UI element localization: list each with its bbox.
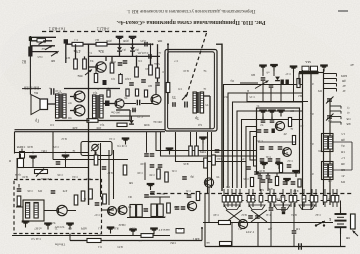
wire <box>64 88 120 90</box>
AF output line pair b <box>15 131 166 133</box>
junction <box>65 152 67 154</box>
trimmer cap 2 <box>326 114 334 121</box>
wire <box>29 57 31 95</box>
wire <box>298 73 300 85</box>
ground <box>275 163 283 169</box>
wire <box>65 162 67 168</box>
capacitor C33 <box>150 165 155 167</box>
electrolytic C10 <box>51 88 54 95</box>
wire <box>167 44 169 82</box>
wire <box>75 44 77 59</box>
capacitor C53 <box>182 177 187 179</box>
wire <box>293 234 295 246</box>
wire <box>273 67 275 77</box>
resistor R18 <box>74 195 78 205</box>
ground <box>270 65 278 71</box>
junction <box>136 55 138 57</box>
wire <box>216 43 222 45</box>
electrolytic C55 <box>105 101 110 107</box>
junction <box>150 43 152 45</box>
switch contact 3 <box>230 189 234 207</box>
electrolytic C59 <box>272 129 275 134</box>
resistor R6 <box>135 67 139 77</box>
resistor R17 <box>17 196 21 206</box>
wire <box>267 179 269 191</box>
switch contact 5 <box>238 189 242 207</box>
wire <box>157 44 159 68</box>
capacitor C23 <box>56 162 61 164</box>
connector prong <box>20 149 25 159</box>
ground <box>260 163 268 169</box>
switch contact 9 <box>268 189 272 207</box>
wire <box>120 73 122 75</box>
wire <box>208 188 210 223</box>
resistor R23 <box>141 234 153 238</box>
wire <box>30 45 55 47</box>
trimmer cap 1 <box>326 97 334 104</box>
wire <box>333 141 352 143</box>
resistor R2 <box>96 42 107 46</box>
capacitor C13 <box>270 120 275 122</box>
wire <box>161 132 257 156</box>
wire <box>95 152 97 156</box>
resistor R3 <box>74 59 78 69</box>
capacitor C64 <box>255 216 260 218</box>
wire <box>231 222 233 246</box>
electrolytic C66 <box>281 208 286 214</box>
IF winding <box>34 203 38 219</box>
contact trapezoid <box>299 205 315 210</box>
volume pot R16 <box>35 169 48 177</box>
capacitor C3 <box>145 42 147 47</box>
screen box A outer <box>165 50 217 132</box>
capacitor C51 <box>187 195 192 197</box>
capacitor C9 <box>185 102 187 108</box>
small part <box>176 229 184 234</box>
wire <box>293 68 295 102</box>
IF can 2b <box>137 205 143 218</box>
switch blade <box>255 81 269 89</box>
resistor R38 <box>196 192 199 201</box>
wire <box>240 82 258 84</box>
fuse holder <box>351 214 356 229</box>
capacitor C4 <box>149 54 151 59</box>
electrolytic C43 <box>281 80 284 85</box>
electrolytic C44 <box>286 80 289 85</box>
wire <box>30 36 56 38</box>
capacitor C37 <box>283 182 288 184</box>
wire <box>302 70 304 75</box>
switch contact 13 <box>293 189 297 207</box>
resistor R35 <box>119 75 122 84</box>
wire <box>209 96 211 129</box>
wire <box>141 103 153 105</box>
switch contact 12 <box>289 189 293 207</box>
resistor R11 <box>117 123 127 126</box>
switch linkage dashed 2 <box>240 200 330 202</box>
wire <box>280 84 282 102</box>
ground <box>166 149 174 155</box>
resistor R4 <box>83 59 87 69</box>
wire <box>65 44 67 63</box>
wire <box>340 201 342 208</box>
wire <box>276 173 278 177</box>
bus wire <box>221 44 223 192</box>
diode D4 <box>129 120 134 124</box>
ground <box>147 184 155 190</box>
ferrite rod MA <box>299 66 319 74</box>
variable cap arrow <box>182 94 188 100</box>
ground <box>320 66 328 72</box>
coil tap b2 <box>330 111 341 114</box>
wire <box>258 141 296 143</box>
capacitor C62 <box>276 159 281 161</box>
transistor T4b <box>283 148 292 157</box>
resistor R42 <box>126 89 129 96</box>
capacitor C41 <box>144 154 149 156</box>
transistor T3 <box>118 206 127 215</box>
junction <box>119 43 121 45</box>
ground <box>259 111 267 117</box>
wire <box>146 132 148 153</box>
wire <box>262 117 264 120</box>
wire <box>159 197 161 204</box>
wire <box>340 234 342 247</box>
wire <box>246 93 248 102</box>
wire <box>113 150 115 199</box>
page dash mark <box>338 10 348 12</box>
IF can 3a <box>151 204 157 217</box>
capacitor C27 <box>144 209 149 211</box>
wire <box>67 210 76 212</box>
switch contact 6 <box>247 189 251 207</box>
driver transformer Tr1b <box>93 95 104 118</box>
resistor R20 <box>103 194 107 204</box>
transistor T5 <box>151 95 161 105</box>
IF can 2a <box>130 205 136 218</box>
wire <box>44 210 57 212</box>
capacitor C28 <box>144 195 149 197</box>
wire <box>48 103 56 105</box>
ground <box>129 37 137 43</box>
resistor R10 <box>87 119 98 123</box>
wire <box>32 163 34 168</box>
bottom rail left <box>70 240 202 242</box>
transistor T7 <box>74 91 85 102</box>
switch contact 7 <box>251 189 255 207</box>
wire <box>262 81 264 102</box>
bus corner 3 <box>254 137 257 167</box>
wire <box>351 142 353 170</box>
junction <box>152 43 154 45</box>
wire <box>131 116 133 120</box>
capacitor C56 <box>137 100 139 106</box>
resistor R12 <box>288 118 291 127</box>
switch Vk <box>315 221 325 227</box>
wire <box>132 51 134 56</box>
wire <box>270 211 272 246</box>
capacitor C63 <box>248 216 253 218</box>
ground <box>290 67 298 73</box>
wire <box>12 235 170 237</box>
wire <box>147 196 170 198</box>
capacitor C7 <box>155 83 160 85</box>
wire <box>190 132 192 146</box>
capacitor C5 <box>118 63 123 65</box>
ground <box>259 66 267 72</box>
wire <box>129 110 131 121</box>
bus L5 <box>242 120 304 189</box>
resistor R7 <box>149 65 153 75</box>
bus corner 1 <box>246 127 257 189</box>
wire <box>202 144 204 151</box>
wire <box>124 103 136 105</box>
wire <box>262 67 264 76</box>
wire <box>52 132 54 160</box>
bus L2 <box>228 93 303 188</box>
transistor T11 <box>238 219 247 228</box>
scan smudge <box>0 10 180 110</box>
wire <box>116 109 130 111</box>
contact trapezoid <box>249 205 265 210</box>
coil tap b1 <box>330 106 341 109</box>
resistor R8 <box>156 68 160 78</box>
switch blade V3 <box>51 51 59 56</box>
coil tap b4 <box>330 122 341 125</box>
wire <box>102 209 115 211</box>
capacitor C65 <box>269 208 274 210</box>
ground <box>292 171 300 177</box>
switch contact 16 <box>314 189 318 207</box>
resistor R19 <box>81 191 85 201</box>
wire <box>105 56 107 61</box>
resistor R36 <box>250 178 253 187</box>
capacitor C24 <box>51 191 56 193</box>
pad <box>64 39 68 43</box>
electrolytic C40 <box>299 243 302 250</box>
bus L3 <box>233 102 304 188</box>
wire <box>70 110 74 112</box>
resistor R5 <box>110 63 114 73</box>
capacitor C35 <box>246 167 251 169</box>
wire <box>144 163 146 181</box>
switch contact 11 <box>281 189 285 207</box>
band coil can 1 <box>322 134 334 152</box>
electrolytic C47 <box>103 80 110 90</box>
wire <box>127 217 165 219</box>
contact trapezoid <box>224 205 240 210</box>
resistor R28 <box>298 179 301 187</box>
ground <box>62 156 70 162</box>
supply rail <box>203 222 333 224</box>
switch contact 15 <box>310 189 314 207</box>
ground <box>66 224 74 230</box>
resistor R40 <box>165 172 168 182</box>
resistor R30 <box>220 242 232 246</box>
capacitor C12 <box>261 120 266 122</box>
module outline dashed <box>14 180 102 234</box>
ground <box>283 179 291 185</box>
resistor R21 <box>167 203 171 213</box>
resistor R19b <box>89 189 93 199</box>
resistor R44 <box>144 90 147 97</box>
coil tap b3 <box>330 117 341 120</box>
switch contact 19 <box>335 189 339 207</box>
wire <box>89 55 161 57</box>
wire <box>156 132 257 151</box>
resistor R41 <box>107 90 110 97</box>
wire <box>18 184 20 188</box>
wire <box>204 194 206 247</box>
wire <box>155 86 157 94</box>
capacitor C48 <box>261 180 266 182</box>
dashed chassis rail <box>42 31 207 33</box>
IF can 3b <box>158 204 164 217</box>
capacitor C42 <box>150 154 155 156</box>
wire <box>55 120 130 122</box>
transistor T8 <box>74 105 85 116</box>
switch contact 17 <box>323 189 327 207</box>
dashed tuning-gang link <box>187 33 207 96</box>
switch contact 14 <box>302 189 306 207</box>
wire <box>119 43 121 47</box>
speaker Gr <box>31 95 48 115</box>
resistor R33 <box>195 146 198 156</box>
capacitor C14 <box>260 147 265 149</box>
capacitor C19 <box>258 176 263 178</box>
wire <box>257 222 259 246</box>
transistor T9 <box>204 178 213 187</box>
resistor R43 <box>135 89 138 96</box>
wire <box>259 173 261 175</box>
bus L1 <box>224 85 304 189</box>
jack Gn1 tip <box>29 37 32 42</box>
switch contact 4 <box>234 189 238 207</box>
ground <box>150 229 158 235</box>
wire <box>157 78 159 82</box>
wire <box>270 203 272 207</box>
wire <box>196 132 198 146</box>
ground <box>129 230 137 236</box>
junction <box>32 152 34 154</box>
switch contact 10 <box>272 189 276 207</box>
resistor R26 <box>204 158 208 168</box>
wire <box>100 143 102 197</box>
wire <box>16 158 18 181</box>
capacitor C16 <box>278 147 283 149</box>
node wire <box>66 43 151 45</box>
resistor R1 <box>72 42 83 46</box>
resistor R34 <box>94 74 97 83</box>
wire <box>88 44 90 205</box>
switch linkage dashed <box>150 193 352 195</box>
wire <box>89 66 96 68</box>
sub-board outline C <box>257 108 300 173</box>
transistor T3g <box>108 207 117 216</box>
wire <box>167 93 169 105</box>
capacitor C18 <box>269 85 274 87</box>
wire <box>267 173 269 175</box>
capacitor C30 <box>175 207 180 209</box>
jack Gn2 <box>91 144 99 158</box>
wire <box>270 88 272 102</box>
ground <box>44 224 52 230</box>
capacitor C29 <box>150 192 155 194</box>
wire <box>22 88 41 90</box>
resistor R13 <box>292 136 295 145</box>
ground <box>122 139 130 145</box>
capacitor C46 <box>129 83 134 85</box>
resistor R15 <box>275 177 278 186</box>
wire <box>319 72 324 74</box>
wire <box>211 132 213 188</box>
wire <box>70 96 74 98</box>
diode D1 <box>117 47 122 51</box>
wire <box>14 132 16 154</box>
diode D3 <box>275 77 280 81</box>
crossing wires <box>226 210 267 222</box>
bus L4 <box>237 111 303 188</box>
transistor T2b <box>275 121 284 130</box>
coil tap 3 <box>324 84 337 87</box>
resistor R31 <box>87 239 101 243</box>
capacitor C58 <box>264 130 269 132</box>
coil tap 4 <box>324 89 337 92</box>
wire <box>132 43 134 47</box>
wire <box>150 56 152 65</box>
capacitor C61 <box>268 159 273 161</box>
wire <box>30 40 52 42</box>
wire <box>30 51 57 53</box>
wire <box>293 203 295 230</box>
wire <box>108 150 110 205</box>
wire <box>69 234 71 241</box>
capacitor C49 <box>268 180 273 182</box>
capacitor C67 <box>292 231 297 233</box>
IF can 1 <box>23 200 44 221</box>
wire <box>95 67 97 74</box>
capacitor C17 <box>261 78 266 80</box>
resistor R24 <box>94 155 98 165</box>
wire <box>110 115 150 117</box>
wire <box>271 117 273 120</box>
strip rail <box>310 74 312 210</box>
capacitor C31 <box>181 207 186 209</box>
junction <box>132 43 134 45</box>
switch blade V4 <box>85 70 92 76</box>
switch contact 8 <box>259 189 263 207</box>
driver transformer Tr1 <box>193 92 204 113</box>
jack Gn1 body <box>28 36 32 57</box>
switch blade V2 <box>45 45 53 49</box>
ground <box>116 37 124 43</box>
wire <box>88 168 90 206</box>
capacitor C26b <box>17 189 22 191</box>
plug symbol <box>37 39 46 42</box>
wire <box>259 179 261 191</box>
wire <box>21 167 89 169</box>
junction <box>201 227 203 229</box>
output transformer Tr2 <box>56 94 67 118</box>
ground <box>268 111 276 117</box>
ground <box>277 111 285 117</box>
wire <box>207 132 209 194</box>
electrolytic C22 <box>18 154 24 168</box>
wire <box>247 101 308 103</box>
switch contact 18 <box>331 189 335 207</box>
resistor R37 <box>279 164 282 173</box>
wire <box>136 56 138 67</box>
